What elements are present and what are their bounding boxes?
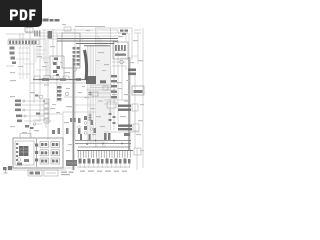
wire vertical x118: [117, 40, 119, 124]
terminal strip rail: [77, 150, 133, 152]
connector tail box lower: [133, 124, 139, 131]
wire right edge 2: [137, 33, 139, 64]
pin column mid: [57, 86, 62, 101]
legend box 1: [28, 170, 42, 176]
CDI dark square: [19, 146, 29, 156]
connector box top small: [25, 28, 33, 33]
switch rows left: [15, 100, 22, 123]
PDF letter F: [29, 10, 35, 21]
wire left stub 1: [22, 100, 48, 102]
hanging comp circles: [78, 126, 93, 131]
wire right edge 3: [142, 28, 144, 168]
junction dots on bus: [39, 79, 123, 145]
small comps under bundle: [84, 116, 87, 130]
wire mid h y85: [90, 84, 112, 86]
wire left stub 5: [24, 120, 40, 122]
connector column mid left: [44, 99, 49, 123]
wire right mid h1: [104, 99, 128, 101]
bus bar main: [33, 79, 96, 81]
ECU connector circle: [73, 68, 77, 72]
wire right upper h1: [112, 61, 126, 63]
PDF letter P: [10, 10, 18, 21]
small marks mid left: [35, 95, 39, 97]
terminal bottom line: [77, 166, 130, 168]
connector circle mid2: [65, 92, 69, 96]
meter marks: [115, 45, 126, 56]
comps above rail: [80, 133, 130, 140]
legend box 1 marks: [30, 172, 41, 175]
wire trunk thick center: [73, 58, 75, 170]
bottom right text dashes: [80, 171, 127, 172]
grid boxes col1: [40, 142, 49, 165]
wire vertical x110: [110, 28, 112, 130]
regulator internal marks: [53, 58, 60, 77]
battery box right: [132, 86, 144, 95]
wire left stub 3: [22, 109, 48, 111]
wire bottom long 1: [3, 167, 75, 169]
legend box 2: [44, 170, 58, 176]
wire top bus 1: [42, 30, 128, 33]
divider pads: [35, 144, 38, 162]
left ladder cluster: [10, 47, 17, 65]
wire left stub 2: [22, 104, 44, 106]
wire top bus 4: [8, 38, 84, 40]
wire vertical V2: [33, 40, 35, 103]
legend box 2 marks: [46, 172, 56, 174]
connector tail box upper: [132, 104, 138, 111]
dark horizontals band top (coil feed): [57, 39, 118, 46]
connector dark pair lower: [118, 125, 132, 131]
relay bank row: [8, 40, 39, 45]
wire box edge lower middle: [63, 112, 95, 144]
wire left stub 4: [22, 115, 44, 117]
relay contacts ticks: [9, 41, 37, 44]
CDI hatch lines: [19, 146, 29, 156]
title text fragment: [43, 19, 60, 22]
faint top line: [75, 26, 105, 28]
inner left tiny rects: [16, 143, 29, 166]
wire vertical V3: [39, 30, 41, 122]
wire vertical V9: [59, 84, 61, 102]
connector circle right upper: [120, 60, 123, 63]
wire y105: [75, 104, 95, 106]
bus bar second: [30, 82, 95, 84]
wire bottom long 2: [3, 169, 66, 171]
texture wires right: [110, 33, 138, 124]
connector circle mid: [39, 95, 43, 99]
small circle on wire 124: [33, 123, 36, 126]
small glyph on wire 114: [36, 113, 40, 115]
wire right mid h2: [104, 103, 118, 105]
pump box small: [66, 160, 77, 166]
grid box pads col1: [41, 143, 47, 163]
tiny switch dots right mid: [109, 113, 116, 124]
wire top bus 2: [25, 32, 128, 34]
left ladder stub wire: [6, 65, 14, 67]
wire vertical x114: [113, 40, 115, 130]
wire mid h y93: [88, 92, 110, 94]
grid box pads col2: [52, 143, 58, 163]
scattered label dashes: [10, 36, 143, 131]
hanging comps column: [78, 118, 96, 133]
hatch cluster small: [34, 31, 40, 37]
terminal comb teeth: [78, 151, 130, 158]
terminal drop wires: [80, 164, 130, 169]
wire vertical V6: [47, 40, 49, 140]
harness bottom dark h-lines: [75, 141, 131, 148]
pump hatch: [66, 162, 77, 164]
mid small box column: [92, 86, 108, 96]
bus dark crossing block: [86, 76, 96, 84]
ECU box U1: [62, 33, 80, 68]
fuse block F1: [48, 31, 53, 39]
wire right col x122: [121, 64, 123, 100]
small cluster below switches: [25, 125, 34, 129]
wire right pre-trunk: [128, 33, 130, 57]
wire vertical V5: [45, 40, 47, 80]
wire bundle vertical gray band: [88, 28, 110, 148]
wire vertical V8: [56, 33, 58, 102]
control unit outer box: [13, 138, 63, 168]
extra label dashes: [10, 24, 144, 151]
grid boxes col2: [51, 142, 60, 165]
diode ladder: [111, 75, 117, 98]
connector dark pair upper: [118, 105, 131, 111]
switch end circles: [23, 100, 26, 117]
comp circles under bundle: [84, 122, 87, 135]
coil crescent dark: [85, 50, 87, 80]
right small box above strip: [134, 148, 141, 155]
wire top bus 3: [40, 35, 120, 37]
wire top right frame: [95, 28, 132, 60]
meter box right: [113, 42, 128, 59]
fuse glyph 5A: [52, 130, 55, 134]
wire vertical V7: [52, 30, 54, 64]
top small box 2: [64, 27, 71, 31]
wire right lower v: [136, 148, 138, 170]
texture wires upper-left: [16, 45, 50, 79]
bottom text dashes: [61, 172, 74, 176]
ground symbol left: [4, 170, 8, 173]
wire vertical V10: [74, 28, 76, 140]
bus tap dark right: [100, 80, 106, 83]
wire mid elbow: [33, 120, 46, 128]
bus segment marks: [42, 78, 81, 80]
terminal loads row: [79, 159, 131, 164]
PDF letter D: [20, 10, 28, 21]
wire mid h y90: [86, 89, 116, 91]
wire right mid h3: [104, 131, 140, 133]
pin grid glyph upper: [88, 92, 92, 96]
top right connector marks: [120, 30, 128, 36]
wire right edge 1: [134, 75, 136, 148]
mid box bottom edge: [64, 96, 112, 98]
PDF badge: [0, 0, 42, 27]
CDI circle: [17, 158, 21, 162]
wire trunk thick right: [128, 57, 130, 150]
right mid boxes: [107, 102, 116, 108]
tiny comps above big box: [58, 118, 81, 134]
wire mid h y87: [90, 87, 112, 89]
battery bar: [134, 90, 143, 93]
bottom left connector cluster: [3, 166, 12, 170]
boxes on bus row: [34, 76, 69, 80]
wire right upper h2: [112, 66, 126, 70]
wire mid stub 1: [36, 113, 62, 115]
wire top right stub 1: [134, 29, 141, 31]
wire vertical V4: [43, 30, 45, 62]
pin grid glyph lower: [88, 114, 92, 122]
divider double line: [36, 139, 38, 167]
wire badge drops: [20, 27, 30, 40]
regulator box outline: [50, 56, 64, 79]
control unit top tab: [20, 134, 31, 139]
connector cluster right upper: [128, 69, 136, 76]
control unit inner left box: [15, 141, 34, 165]
wire top right stub 2: [134, 32, 141, 34]
wire left short: [6, 33, 25, 35]
wire vertical V1: [29, 32, 31, 138]
wire mid stub 2: [33, 123, 42, 125]
ECU pin pads: [73, 47, 80, 66]
